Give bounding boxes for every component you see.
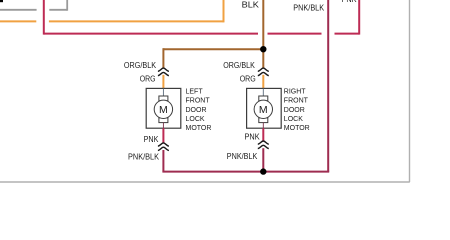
connector break right top (258, 68, 269, 76)
svg-text:PNK/BLK: PNK/BLK (227, 152, 258, 161)
right motor box (247, 88, 282, 128)
connector break left top (158, 68, 169, 76)
wire ORG into left motor (162, 75, 164, 89)
right motor M symbol (254, 88, 272, 128)
left motor M symbol (154, 88, 172, 128)
wire ORG into right motor (262, 75, 264, 89)
svg-text:ORG/BLK: ORG/BLK (223, 61, 255, 70)
wire ORG/BLK vertical from top (262, 0, 264, 49)
wire PNK/BLK from right motor to junction (262, 148, 264, 171)
svg-text:M: M (159, 104, 168, 116)
wire PNK top (44, 0, 359, 35)
wire ORG top (0, 0, 224, 22)
wire ORG/BLK branch to right motor (262, 49, 264, 68)
svg-text:PNK/BLK: PNK/BLK (128, 152, 160, 161)
connector break right bottom (258, 141, 269, 149)
svg-text:PNK: PNK (245, 133, 261, 142)
svg-text:BLK: BLK (242, 1, 260, 10)
node junction top (260, 46, 266, 52)
left motor box (146, 88, 181, 128)
wire GRY top-left (0, 0, 67, 11)
svg-text:PNK: PNK (342, 0, 358, 4)
wire PNK below left motor (162, 128, 164, 143)
wire PNK/BLK from left motor to junction (162, 150, 263, 172)
wire ORG/BLK branch to left motor (163, 48, 263, 68)
svg-text:ORG: ORG (140, 75, 156, 84)
connector break left bottom (158, 143, 169, 151)
svg-text:PNK: PNK (144, 135, 159, 144)
frame edge (diagram border) (0, 0, 410, 182)
wire PNK/BLK right vertical (263, 0, 329, 172)
svg-text:M: M (259, 104, 268, 116)
node junction bottom (260, 168, 266, 174)
svg-text:PNK/BLK: PNK/BLK (293, 3, 324, 12)
svg-text:ORG/BLK: ORG/BLK (124, 61, 157, 70)
wire PNK below right motor (262, 128, 264, 141)
svg-text:ORG: ORG (240, 75, 256, 84)
